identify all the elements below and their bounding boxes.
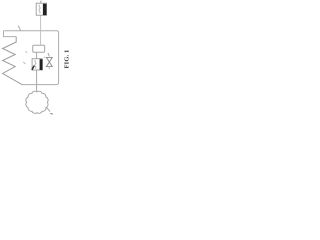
resistor R1 (capillary-tube zigzag) <box>3 37 22 85</box>
heat exchanger HX1 (top box) <box>36 1 46 16</box>
FIG. 1 label <box>64 49 71 68</box>
wire: left hairpin return bend <box>4 31 17 37</box>
node 16 mark near zigzag <box>25 51 27 53</box>
valve V1 leader <box>48 53 50 57</box>
wire: outer loop top rail, right rail, bottom rail <box>4 31 59 85</box>
wire: evaporator HX2 down to bottom rail <box>36 70 38 85</box>
wire: bottom rail down to compressor M1 <box>36 85 38 92</box>
wire: drop from condenser HX1 to receiver <box>40 15 42 45</box>
wire: receiver to evaporator HX2 <box>36 52 38 59</box>
node 15 mark near valve <box>44 57 46 58</box>
compressor M1 (scalloped circle) <box>26 91 48 113</box>
node 10 leader at compressor <box>46 107 50 111</box>
node 10 numeral <box>50 113 53 114</box>
receiver U1 (small middle rectangle) <box>33 45 45 52</box>
node 17 mark near zigzag <box>23 62 25 64</box>
heat exchanger HX2 (lower box) <box>32 59 43 70</box>
valve V1 (expansion valve, hourglass) <box>46 57 52 69</box>
node 12 leader on top rail <box>18 26 20 31</box>
